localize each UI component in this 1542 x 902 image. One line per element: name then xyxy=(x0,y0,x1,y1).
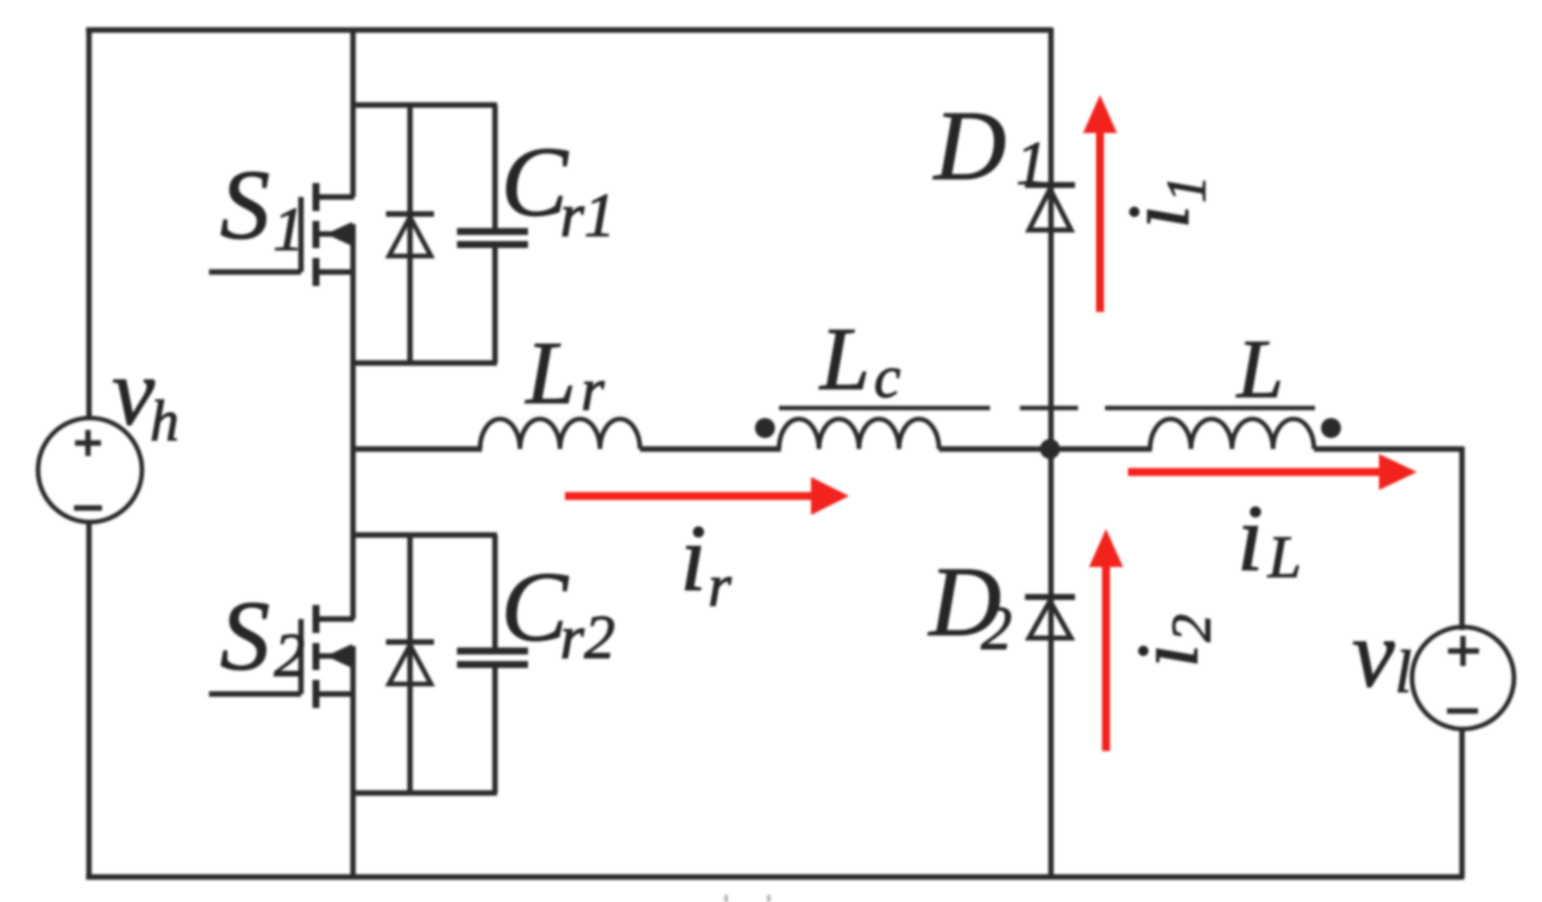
node junction dot xyxy=(1040,439,1060,459)
capacitor Cr2 branch wire lower xyxy=(492,668,497,793)
svg-text:v: v xyxy=(112,338,155,445)
diode D1 xyxy=(1025,185,1075,230)
body diode of S2 branch wire xyxy=(407,533,412,795)
core bar over L xyxy=(1105,406,1315,410)
wire phase leg lower (S2 source to bottom rail) xyxy=(350,646,355,877)
coupling dot Lc xyxy=(755,418,775,438)
svg-text:2: 2 xyxy=(274,622,305,690)
label D1 xyxy=(932,90,1047,201)
core bar dash at junction xyxy=(1020,406,1078,410)
svg-text:2: 2 xyxy=(981,595,1012,663)
vh minus xyxy=(74,505,102,510)
svg-text:i: i xyxy=(1237,485,1263,591)
svg-text:1: 1 xyxy=(1016,130,1047,198)
wire left rail lower xyxy=(86,522,91,879)
capacitor Cr2 plates xyxy=(457,651,528,665)
svg-text:c: c xyxy=(874,344,901,410)
svg-text:h: h xyxy=(150,388,179,453)
svg-text:v: v xyxy=(1352,600,1395,707)
wire right rail x=1051 xyxy=(1048,28,1053,876)
svg-text:L: L xyxy=(1236,323,1284,416)
wire top rail xyxy=(86,27,1053,32)
label Lr xyxy=(524,324,605,423)
vl minus xyxy=(1447,708,1478,713)
wire L to right rail xyxy=(1314,446,1464,451)
transistor S2 (MOSFET) xyxy=(209,605,354,708)
diode D2 xyxy=(1025,597,1075,638)
label Cr2 xyxy=(501,551,615,672)
capacitor Cr1 branch wire upper xyxy=(492,105,497,229)
inductor Lc xyxy=(779,419,939,449)
body diode of S1 symbol xyxy=(386,214,434,256)
label i1 (rotated) xyxy=(1111,175,1218,229)
wire Lc to L xyxy=(939,446,1152,451)
body diode of S2 symbol xyxy=(386,642,434,684)
label Cr1 xyxy=(501,126,615,250)
capacitor Cr2 branch wire upper xyxy=(492,535,497,648)
svg-text:L: L xyxy=(818,310,870,409)
label D2 xyxy=(927,546,1012,663)
label vl xyxy=(1352,600,1412,707)
wire cell1 bottom xyxy=(352,360,497,365)
caption hint xyxy=(726,895,769,902)
wire right branch upper xyxy=(1459,447,1464,630)
svg-text:l: l xyxy=(1395,639,1412,705)
svg-text:i: i xyxy=(1120,644,1217,668)
svg-text:1: 1 xyxy=(1156,175,1218,203)
label S1 xyxy=(220,149,304,264)
vh plus xyxy=(75,430,101,456)
svg-text:r: r xyxy=(708,553,732,619)
svg-text:1: 1 xyxy=(273,196,304,264)
current arrow iL xyxy=(1128,454,1417,490)
capacitor Cr1 branch wire lower xyxy=(492,248,497,363)
wire mid (phase node to Lr) xyxy=(352,446,482,451)
current arrow i2 xyxy=(1089,529,1123,751)
current arrow i1 xyxy=(1083,95,1117,312)
svg-text:i: i xyxy=(1111,205,1208,229)
svg-text:D: D xyxy=(932,90,1006,201)
wire phase leg middle (S1 source to S2 drain) xyxy=(350,224,355,619)
vl plus xyxy=(1448,636,1479,666)
current arrow ir xyxy=(565,477,849,515)
capacitor Cr1 plates xyxy=(457,232,528,245)
svg-text:i: i xyxy=(680,505,706,611)
wire phase leg upper (top rail to S1 drain) xyxy=(350,28,355,197)
voltage source vl xyxy=(1412,627,1514,729)
svg-text:r1: r1 xyxy=(560,182,615,250)
wire cell2 top xyxy=(352,532,497,537)
svg-text:r: r xyxy=(581,357,605,423)
body diode of S1 branch wire xyxy=(407,103,412,365)
svg-text:C: C xyxy=(501,551,569,662)
inductor L xyxy=(1150,419,1314,449)
label Lc xyxy=(818,310,901,410)
inductor Lr xyxy=(480,419,640,449)
core bar over Lc xyxy=(779,406,990,410)
wire Lr to Lc xyxy=(640,446,781,451)
label i2 (rotated) xyxy=(1120,614,1223,668)
svg-text:L: L xyxy=(524,324,576,423)
wire cell1 top xyxy=(352,102,497,107)
wire bottom rail xyxy=(86,874,1464,879)
label ir xyxy=(680,505,732,619)
transistor S1 (MOSFET) xyxy=(209,183,354,286)
svg-text:S: S xyxy=(220,149,270,260)
svg-text:L: L xyxy=(1267,524,1301,590)
label iL xyxy=(1237,485,1301,591)
svg-text:r2: r2 xyxy=(560,604,615,672)
voltage source vh xyxy=(38,418,142,522)
svg-text:S: S xyxy=(220,580,270,691)
svg-text:C: C xyxy=(501,126,569,237)
svg-text:2: 2 xyxy=(1161,614,1223,642)
wire cell2 bottom xyxy=(352,790,497,795)
label vh xyxy=(112,338,179,453)
coupling dot L xyxy=(1321,418,1341,438)
wire right branch lower xyxy=(1459,727,1464,878)
wire left rail upper xyxy=(86,28,91,419)
label S2 xyxy=(220,580,305,691)
